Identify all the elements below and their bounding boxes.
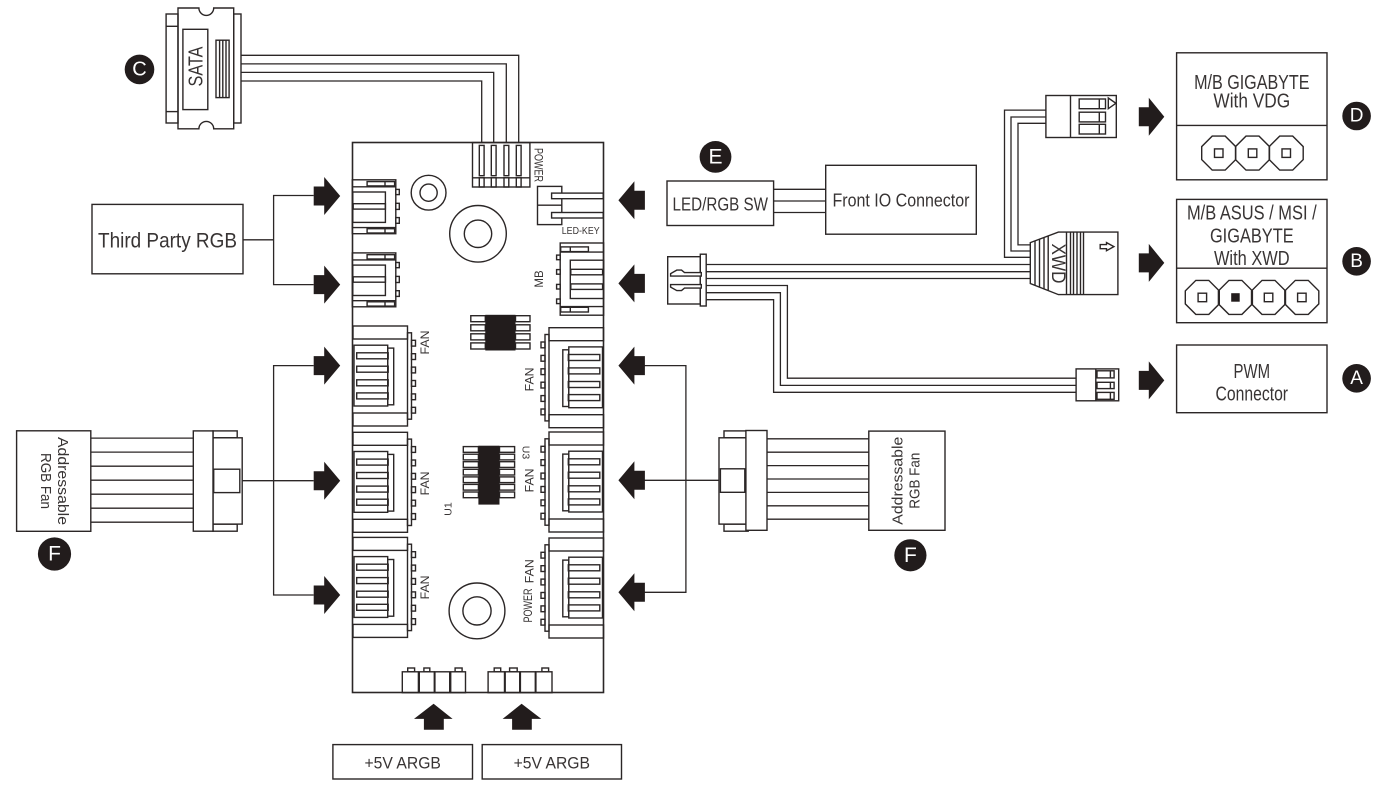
arrow to PWM Connector box: [1139, 361, 1165, 399]
svg-text:U1: U1: [443, 502, 455, 516]
SATA power connector P1 left cap: [166, 14, 178, 123]
MB header (right edge): [557, 243, 604, 315]
svg-text:POWER: POWER: [532, 148, 544, 182]
wire left ARGB connector to bracket: [242, 480, 273, 482]
svg-text:FAN: FAN: [418, 471, 432, 495]
wire Third Party RGB to bracket: [243, 239, 274, 241]
svg-text:D: D: [1350, 106, 1364, 127]
svg-text:E: E: [708, 145, 722, 168]
svg-text:Addressable: Addressable: [54, 437, 70, 525]
svg-text:LED/RGB SW: LED/RGB SW: [673, 195, 769, 215]
ARGB terminal block bottom-right: [488, 668, 552, 693]
ARGB plug left: [193, 431, 242, 531]
LED/RGB SW box: [667, 181, 774, 226]
svg-text:With XWD: With XWD: [1214, 248, 1290, 270]
svg-text:RGB Fan: RGB Fan: [908, 453, 924, 509]
svg-text:+5V ARGB: +5V ARGB: [514, 753, 590, 772]
FAN header left 1: [353, 326, 416, 426]
arrow into RGB header J1: [314, 177, 341, 215]
wire XWD to VDG 2: [1011, 117, 1046, 251]
wire plug to PWM 1: [706, 286, 1076, 379]
FAN header right 3: [541, 538, 604, 638]
SATA connector right column: [234, 14, 241, 123]
svg-text:RGB Fan: RGB Fan: [37, 453, 53, 509]
svg-text:SATA: SATA: [185, 46, 207, 87]
arrow into LED-KEY header: [618, 181, 645, 219]
svg-text:M/B ASUS / MSI /: M/B ASUS / MSI /: [1187, 202, 1317, 224]
arrow into FAN header R2: [618, 461, 645, 499]
svg-text:FAN: FAN: [523, 559, 537, 583]
arrow into RGB header J2: [314, 266, 341, 304]
arrow up to right ARGB block: [503, 704, 542, 730]
svg-text:MB: MB: [534, 270, 546, 288]
VDG plug: [1046, 96, 1116, 138]
arrow into FAN header R1: [618, 347, 645, 385]
svg-text:LED-KEY: LED-KEY: [562, 225, 600, 237]
controller PCB board outline: [353, 143, 604, 693]
PWM plug: [1076, 369, 1119, 401]
svg-text:FAN: FAN: [418, 331, 432, 355]
ribbon cable left ARGB fan: [91, 438, 194, 522]
Addressable RGB Fan box left: [17, 431, 91, 532]
SATA label plate: [183, 29, 208, 109]
FAN header left 3: [353, 537, 416, 637]
POWER header J-PWR outline: [473, 143, 530, 187]
wire plug to XWD 3: [706, 278, 1030, 280]
Third Party RGB box: [92, 204, 243, 273]
svg-text:Connector: Connector: [1216, 383, 1289, 405]
XWD plug: [1030, 232, 1118, 295]
svg-text:F: F: [904, 544, 917, 567]
arrow to M/B GIGABYTE box: [1139, 98, 1165, 136]
arrow into FAN header L2: [314, 462, 341, 500]
bracket left FAN headers: [274, 366, 314, 595]
svg-text:FAN: FAN: [523, 367, 537, 391]
label circle D: [1342, 102, 1371, 131]
arrow into FAN header L3: [314, 576, 341, 614]
FAN header left 2: [353, 432, 416, 532]
IC U1: [463, 446, 514, 505]
mounting hole large: [450, 206, 507, 263]
svg-text:B: B: [1350, 251, 1363, 272]
svg-text:A: A: [1350, 368, 1363, 389]
svg-text:GIGABYTE: GIGABYTE: [1210, 226, 1294, 248]
svg-text:POWER: POWER: [523, 589, 535, 623]
VDG socket pins: [1202, 136, 1304, 170]
ribbon cable right ARGB fan: [767, 439, 869, 519]
wire SATA to POWER pin1: [241, 81, 482, 143]
wire plug to PWM 3: [706, 300, 1076, 393]
IC U2: [471, 315, 530, 351]
svg-text:C: C: [132, 58, 146, 80]
wire right ARGB connector to bracket: [686, 479, 719, 481]
PWM Connector box: [1177, 345, 1327, 413]
label circle B: [1342, 247, 1371, 276]
Addressable RGB Fan box right: [869, 431, 945, 530]
svg-text:Addressable: Addressable: [891, 437, 907, 525]
MB cable 2-pin plug: [668, 254, 707, 306]
arrow to M/B ASUS box: [1139, 244, 1165, 282]
svg-text:F: F: [48, 543, 61, 566]
wire SATA to POWER pin4: [241, 55, 519, 142]
svg-text:Front IO Connector: Front IO Connector: [833, 191, 970, 211]
bracket right FAN headers: [645, 366, 686, 593]
M/B GIGABYTE With VDG box: [1177, 53, 1327, 180]
wires LED/RGB SW to Front IO: [774, 189, 826, 212]
SATA contact stripes: [216, 40, 229, 97]
svg-text:XWD: XWD: [1047, 244, 1068, 284]
XWD socket pins: [1185, 280, 1319, 314]
+5V ARGB box left: [333, 745, 473, 779]
svg-text:PWM: PWM: [1234, 361, 1271, 383]
+5V ARGB box right: [482, 745, 621, 779]
wire SATA to POWER pin3: [241, 64, 506, 143]
wire plug to PWM 2: [706, 293, 1076, 386]
svg-text:FAN: FAN: [523, 468, 537, 492]
RGB header J2 (left second): [352, 253, 399, 307]
wire plug to XWD 2: [706, 271, 1030, 273]
svg-text:+5V ARGB: +5V ARGB: [365, 753, 441, 772]
label circle F left: [38, 537, 71, 570]
label circle C: [125, 55, 155, 85]
arrow into FAN header R3: [618, 573, 645, 611]
M/B ASUS MSI GIGABYTE With XWD box: [1177, 199, 1327, 322]
svg-text:FAN: FAN: [418, 575, 432, 599]
arrow into MB header: [618, 264, 645, 302]
label circle E: [700, 141, 732, 173]
svg-text:With VDG: With VDG: [1213, 91, 1290, 113]
wire plug to XWD 1: [706, 264, 1030, 266]
FAN header right 1: [541, 328, 604, 428]
wire XWD to VDG 3: [1018, 123, 1046, 245]
wire XWD to VDG 1: [1005, 110, 1046, 257]
ARGB terminal block bottom-left: [402, 668, 465, 693]
RGB header J1 (left top): [352, 180, 399, 234]
svg-text:U3: U3: [519, 446, 531, 460]
FAN header right 2: [541, 432, 604, 532]
mounting hole small: [411, 175, 446, 210]
SATA power connector P1 body: [178, 8, 234, 129]
wire SATA to POWER pin2: [241, 72, 494, 142]
svg-text:Third Party RGB: Third Party RGB: [98, 230, 237, 253]
arrow into FAN header L1: [314, 347, 341, 385]
ARGB plug right: [719, 431, 767, 532]
label circle F right: [894, 539, 926, 571]
bracket Third Party RGB: [274, 196, 314, 285]
LED-KEY header: [538, 186, 604, 224]
mounting hole bottom: [449, 583, 505, 639]
label circle A: [1342, 364, 1371, 393]
Front IO Connector box: [826, 165, 977, 234]
arrow up to left ARGB block: [414, 704, 453, 730]
